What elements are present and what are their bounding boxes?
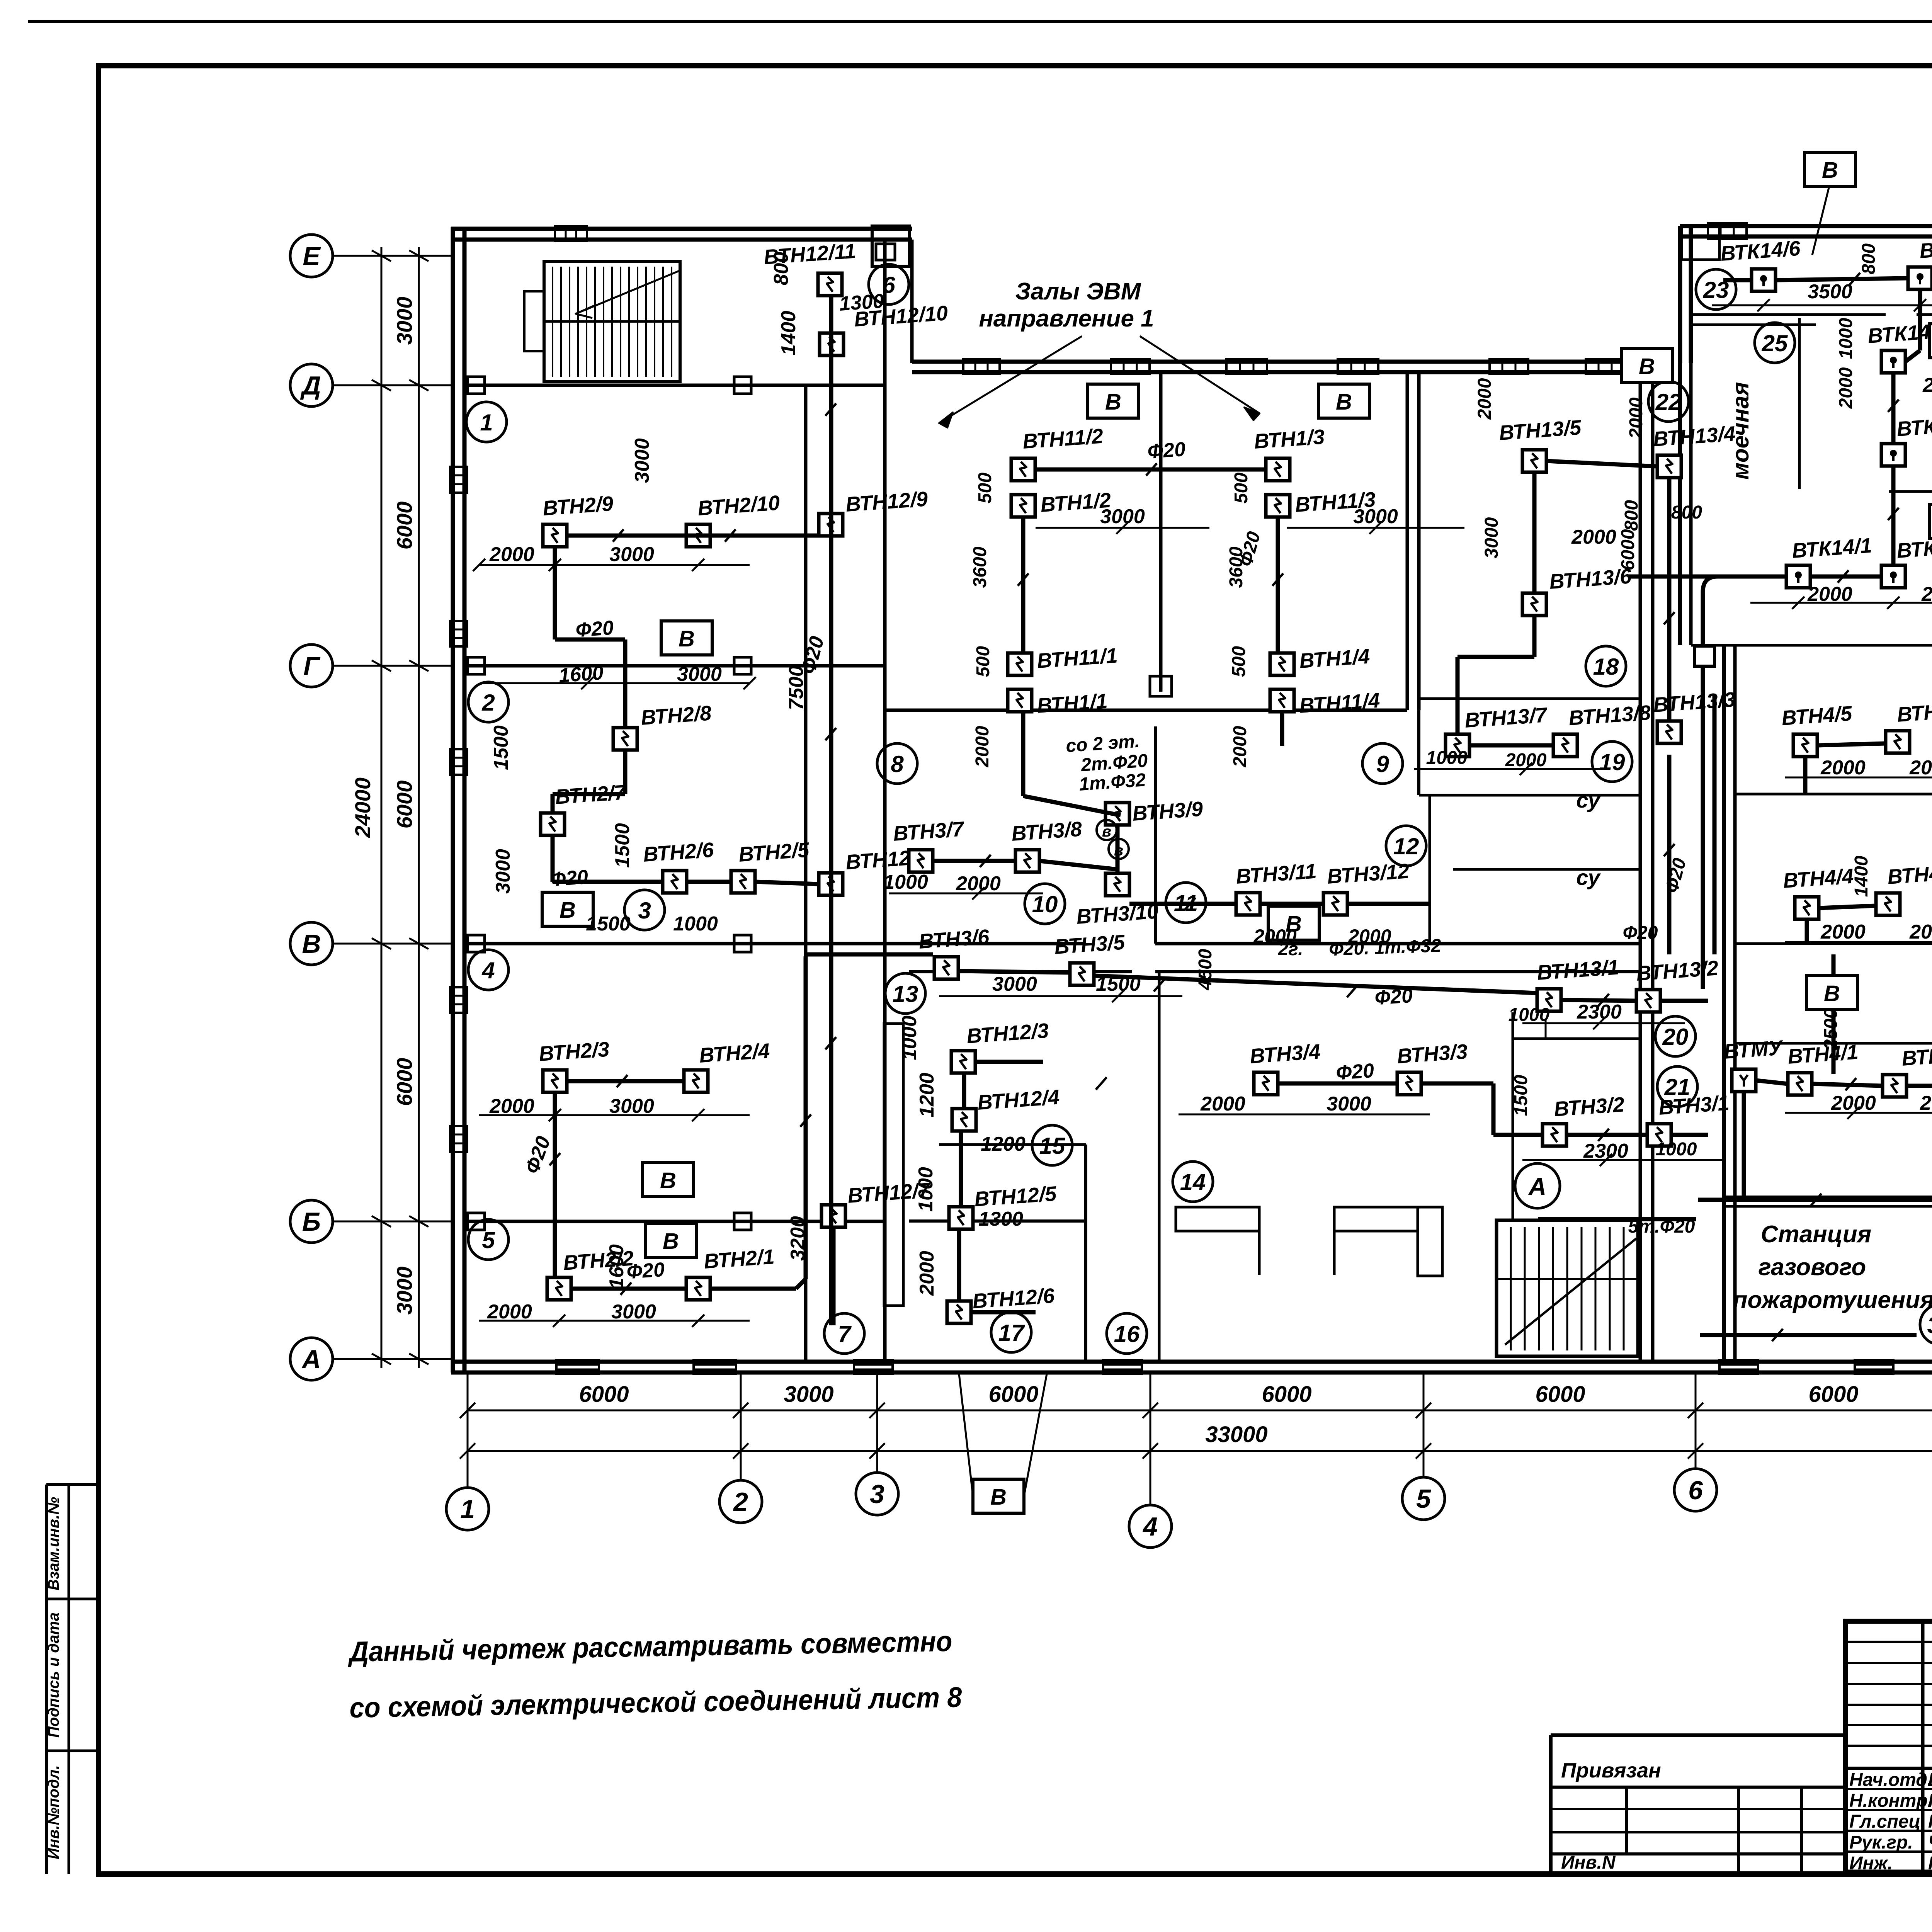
svg-text:Рук.гр.: Рук.гр. [1849,1832,1913,1853]
svg-text:3000: 3000 [1100,505,1145,528]
wire [1532,472,1537,593]
room circle 8 [877,743,917,784]
wire [1918,289,1922,350]
wire [1278,1082,1397,1086]
room circle 13 [885,973,925,1014]
sensor ВТН13/6 [1522,593,1546,616]
marker B [645,1223,696,1257]
svg-text:2000: 2000 [489,543,534,566]
svg-text:2000: 2000 [916,1251,938,1296]
bottom axis circle 6 [1674,1469,1717,1511]
svg-text:ВТН1/3: ВТН1/3 [1253,425,1325,453]
sensor ВТН2/4 [684,1070,708,1092]
wire [1260,902,1323,906]
svg-text:моечная: моечная [1728,382,1753,480]
wire [1532,616,1537,657]
wire slash marks [613,529,624,542]
room19 west wall [1417,710,1420,795]
room circle 10 [1025,884,1065,924]
wall axis Д [464,384,885,387]
svg-text:800: 800 [1671,502,1702,523]
corridor 20 riser wire [1703,577,1786,989]
wall axis Г [464,664,885,668]
svg-text:9: 9 [1376,751,1389,777]
sensor ВТН1/2 [1011,495,1035,517]
wire [1116,825,1120,873]
svg-text:Инж.: Инж. [1849,1853,1893,1874]
title block left grid blank rows [1845,1641,1932,1643]
svg-text:2: 2 [733,1487,748,1517]
sensor ВТН2/9 [543,524,567,547]
svg-text:В: В [1822,158,1838,183]
svg-text:А: А [301,1345,321,1374]
svg-text:6000: 6000 [392,502,417,550]
svg-text:500: 500 [973,646,993,677]
svg-text:5: 5 [1416,1484,1431,1514]
svg-text:2000: 2000 [956,872,1001,895]
svg-text:Подпись и дата: Подпись и дата [45,1612,62,1738]
wire [710,1287,796,1291]
svg-text:Е: Е [303,241,321,271]
axis A stair circle [1515,1163,1560,1208]
svg-text:500: 500 [975,473,995,503]
svg-text:Залы ЭВМ: Залы ЭВМ [1015,278,1141,305]
wall axis В center part [1155,942,1640,946]
svg-text:24000: 24000 [350,777,375,838]
privyazan sub-table [1551,1733,1845,1737]
svg-text:3000: 3000 [492,849,514,894]
sensor ВТН2/1 [686,1277,710,1300]
wire [1021,517,1026,653]
wire [1035,468,1266,472]
sensor ВТН4/3 [1876,893,1900,915]
marker B room27 [1806,976,1857,1010]
sensor ВТН11/1 [1008,653,1032,675]
svg-text:Волков: Волков [1928,1770,1932,1790]
svg-text:2000: 2000 [1820,921,1866,943]
wire [553,880,663,884]
wire [1723,278,1751,282]
stairwell fire-station [1497,1220,1638,1356]
wall center top exterior [912,360,1658,364]
svg-text:В: В [679,626,695,651]
marker B [1268,906,1319,940]
stairwell top-left [544,262,680,381]
wire [829,296,833,1325]
wire [1832,954,1836,1074]
wire [1660,999,1708,1003]
sensor ВТН11/4 [1270,689,1294,712]
svg-text:1400: 1400 [1851,855,1872,897]
marker B [661,621,712,655]
svg-text:направление 1: направление 1 [979,305,1154,332]
wire [1458,655,1534,659]
wire [962,1073,966,1109]
sensor ВТН11/3 [1266,495,1290,517]
svg-text:500: 500 [1229,646,1249,677]
wire [1667,478,1672,721]
room circle 1 [466,402,507,442]
svg-text:1200: 1200 [916,1073,938,1117]
svg-text:3000: 3000 [392,297,417,345]
svg-text:1500: 1500 [1096,973,1141,995]
svg-text:10: 10 [1032,891,1058,917]
left strip column [45,1485,48,1874]
svg-text:су: су [1576,865,1601,889]
corridor axis2-3 walls [804,385,808,1362]
su rooms walls [1429,795,1431,944]
svg-text:1500: 1500 [611,823,634,868]
svg-text:Ф20: Ф20 [1147,438,1186,463]
sensor ВТН3/10 [1105,873,1129,896]
svg-text:ВТМУ: ВТМУ [1723,1036,1784,1063]
svg-text:ВТН2/5: ВТН2/5 [738,838,810,866]
room circle 30 [1920,1304,1932,1345]
bottom dimension lines [468,1410,1932,1412]
title block outer [1845,1621,1932,1872]
wall top-left exterior [451,227,912,231]
wire [1812,1084,1883,1086]
svg-text:3600: 3600 [970,546,990,588]
wire [1819,906,1876,908]
wire [1756,1080,1788,1084]
room circle 12 [1386,826,1426,866]
svg-text:18: 18 [1593,654,1619,680]
svg-text:1000: 1000 [673,913,718,935]
svg-text:3000: 3000 [784,1382,833,1407]
svg-text:3500: 3500 [1808,281,1852,303]
axis В [290,922,333,965]
marker B [643,1163,694,1197]
svg-text:В: В [660,1168,676,1193]
wire [804,956,808,1279]
svg-text:5: 5 [482,1227,495,1253]
bottom axis circle 2 [719,1480,762,1523]
svg-text:5т.Ф20: 5т.Ф20 [1628,1216,1695,1237]
sensor ВТН12/7 [821,1205,845,1227]
bottom axis circle 3 [856,1473,898,1515]
marker B [1804,152,1855,186]
extra dimension lines [1712,304,1932,306]
wire [1129,902,1236,906]
svg-text:Ф20: Ф20 [575,617,614,642]
svg-text:25: 25 [1762,330,1788,356]
wire [553,792,625,796]
svg-text:ВТН4/3: ВТН4/3 [1887,861,1932,889]
wire [975,1060,1043,1064]
svg-text:1000: 1000 [883,871,928,893]
svg-text:2000: 2000 [1505,750,1547,770]
wire [1742,1092,1746,1197]
svg-text:Нач.отд.: Нач.отд. [1849,1770,1932,1790]
wire [687,880,731,884]
stair landing [524,291,544,351]
wire [1021,712,1026,796]
svg-text:500: 500 [1231,473,1252,503]
svg-text:ВТН4/6: ВТН4/6 [1896,698,1932,726]
svg-text:2000: 2000 [1921,583,1932,605]
sensor ВТМУ [1732,1069,1756,1092]
svg-text:4: 4 [481,957,495,983]
svg-text:В: В [1639,354,1655,379]
wire [1817,743,1886,745]
svg-text:13: 13 [893,981,918,1007]
svg-text:1600: 1600 [605,1244,628,1289]
svg-text:6000: 6000 [1535,1382,1585,1407]
wire [1810,575,1881,579]
sensor ВТН12/11 [818,273,842,296]
room circle 25 [1755,323,1795,363]
wire [555,638,625,642]
sensor ВТН3/8 [1015,850,1039,872]
wire [623,750,628,794]
bottom axis circle 5 [1402,1477,1445,1520]
sensor ВТН4/4 [1795,897,1819,919]
svg-text:ВТН3/1: ВТН3/1 [1658,1091,1730,1119]
svg-text:6000: 6000 [1808,1382,1858,1407]
wire [971,1310,1036,1315]
sensor ВТН1/4 [1270,653,1294,675]
svg-text:Д: Д [300,371,321,400]
sensor ВТН11/2 [1011,458,1035,481]
svg-text:В: В [990,1485,1007,1510]
svg-text:3000: 3000 [992,973,1037,995]
wire [1891,373,1896,444]
wire [551,835,555,882]
wire [1276,517,1280,653]
wire [1561,1000,1636,1001]
svg-text:4: 4 [1142,1512,1158,1541]
svg-text:ВТН3/5: ВТН3/5 [1054,930,1126,959]
marker B [1930,504,1932,538]
svg-text:1500: 1500 [586,913,631,935]
svg-text:6000: 6000 [1262,1382,1311,1407]
sensor ВТН3/9 [1105,803,1129,825]
svg-text:ВТН3/6: ВТН3/6 [918,925,990,953]
svg-text:1000: 1000 [915,1167,937,1212]
room15/17 divider [909,1219,1086,1223]
center top windows [963,359,1000,374]
svg-text:3000: 3000 [631,438,653,483]
svg-text:2300: 2300 [1583,1140,1628,1162]
svg-text:7500: 7500 [785,665,808,710]
svg-text:2000: 2000 [1626,397,1646,439]
room circle 23 [1696,269,1736,310]
wire [1667,755,1672,954]
wall axis Б [464,1220,885,1223]
small junction circles [1097,820,1117,840]
sensor ВТН12/5 [949,1207,973,1229]
svg-text:2000: 2000 [1909,921,1932,943]
sensor ВТН4/6 [1886,731,1910,753]
marker B [1930,324,1932,358]
svg-text:Червоткин: Червоткин [1928,1832,1932,1853]
wire [1906,1084,1932,1088]
room18 bottom wall [1419,697,1640,700]
svg-text:ВТН2/9: ВТН2/9 [542,492,614,520]
wire [1776,278,1908,280]
svg-text:800: 800 [1621,500,1642,531]
svg-text:ВТН2/1: ВТН2/1 [703,1245,775,1273]
wire [796,1279,806,1289]
title block signature rows [1845,1767,1932,1770]
corridor В south wall west part [909,970,1132,973]
svg-text:2300: 2300 [1577,1001,1622,1023]
column post hall [1150,676,1172,696]
left dimension chain lines [381,247,383,1368]
svg-text:ВТН2/3: ВТН2/3 [538,1037,610,1066]
svg-text:в: в [1102,823,1111,840]
room circle 20 [1655,1016,1696,1056]
svg-text:В: В [560,898,576,923]
svg-text:ВТН4/5: ВТН4/5 [1781,702,1853,730]
sensor ВТН12/6 [947,1301,971,1323]
room circle 11 [1166,883,1206,923]
room circle 3 [624,890,665,930]
room circle 6 [869,264,909,304]
sensor ВТН2/6 [663,871,687,893]
room19 bottom wall [1419,794,1640,797]
svg-text:ВТН3/3: ВТН3/3 [1396,1040,1468,1068]
sensor ВТН2/2 [547,1277,571,1300]
svg-text:1000: 1000 [1656,1139,1697,1160]
axis Б [290,1200,333,1243]
svg-text:2000: 2000 [1230,726,1250,767]
wire [567,1079,684,1083]
wire [958,971,1070,973]
svg-text:6: 6 [882,272,895,298]
sensor ВТК14/6 [1752,269,1776,291]
marker B [973,1479,1024,1513]
svg-text:Г: Г [303,651,321,681]
svg-text:В: В [1336,389,1352,415]
wire [1456,657,1460,734]
svg-text:1300: 1300 [838,290,885,315]
room circle 9 [1362,743,1403,784]
svg-text:1: 1 [480,410,493,435]
sensor ВТН3/6 [934,957,958,979]
title block left grid verticals [1921,1621,1925,1872]
wire [1546,461,1657,466]
svg-text:Инв.№подл.: Инв.№подл. [45,1765,62,1859]
svg-text:ВТН4/4: ВТН4/4 [1782,864,1854,893]
sensor ВТН13/8 [1553,734,1577,757]
svg-text:2000: 2000 [1475,378,1495,420]
room circle 15 [1032,1125,1072,1165]
room circle 2 [468,682,509,722]
svg-text:Ф20: Ф20 [549,866,589,891]
sensor ВТН3/12 [1323,893,1347,915]
svg-text:В: В [1105,389,1121,415]
sensor ВТК14/3 [1881,444,1905,466]
svg-text:ВТН2/6: ВТН2/6 [643,838,715,866]
svg-text:1500: 1500 [490,725,512,770]
svg-text:2000: 2000 [1807,583,1852,605]
sensor ВТН12/8 [819,873,843,895]
wire [832,1227,836,1325]
wire [571,1287,686,1291]
hall divider 8/9 [1159,372,1163,692]
wire [1905,350,1920,362]
wire [957,1229,961,1301]
svg-text:Ф20: Ф20 [1335,1060,1375,1085]
top-left canopy [872,226,910,266]
wire [567,534,819,538]
right corridor walls [1639,372,1642,1362]
svg-text:3000: 3000 [1327,1093,1371,1115]
marker B [1318,384,1369,418]
sensor ВТН2/8 [613,728,637,750]
svg-text:3000: 3000 [1481,517,1502,558]
svg-text:6000: 6000 [988,1382,1038,1407]
svg-text:В: В [663,1229,679,1254]
vestibule west wall [1158,972,1161,1362]
svg-text:2000: 2000 [487,1301,532,1323]
svg-text:2000: 2000 [1253,925,1296,947]
svg-text:В: В [302,929,321,959]
wire [1629,575,1786,579]
axis Д [290,364,333,406]
svg-text:22: 22 [1655,389,1682,415]
wire [1698,1198,1932,1202]
bottom wall windows [556,1360,599,1374]
halls bottom wall [885,709,1407,712]
svg-text:8: 8 [891,751,904,777]
leader lines for B boxes [1812,186,1829,255]
svg-text:1000: 1000 [1509,1005,1550,1025]
wire [1023,796,1121,815]
room15 walls [939,1143,1086,1146]
svg-text:А: А [1528,1173,1546,1201]
svg-text:6000: 6000 [1618,529,1638,570]
sensor ВТН1/1 [1008,689,1032,712]
svg-text:12: 12 [1393,833,1419,859]
svg-text:2000: 2000 [1922,374,1932,396]
sensor ВТН1/3 [1266,458,1290,481]
wire [1538,1217,1696,1221]
svg-text:1: 1 [460,1495,475,1524]
svg-text:Побережец: Побережец [1928,1853,1932,1874]
wire [1566,1133,1647,1137]
marker B [1088,384,1139,418]
svg-text:800: 800 [770,252,793,286]
svg-text:Привязан: Привязан [1561,1759,1661,1782]
svg-text:су: су [1576,788,1601,812]
vestibule porches [1176,1207,1259,1231]
svg-text:19: 19 [1599,749,1625,775]
svg-text:Б: Б [302,1207,321,1236]
svg-text:1000: 1000 [898,1015,921,1060]
svg-text:3200: 3200 [787,1216,809,1261]
svg-text:ВТН2/8: ВТН2/8 [640,701,712,730]
wire [1700,1333,1917,1337]
svg-text:Инв.N: Инв.N [1561,1852,1616,1873]
svg-text:ВТН1/4: ВТН1/4 [1299,645,1371,673]
top-left wall window [555,226,587,241]
svg-text:800: 800 [1859,243,1879,274]
corridor jog wall top [910,240,914,363]
marker B [1621,349,1672,383]
room12 west wall [1154,726,1157,944]
wall axis В mid [885,942,1086,946]
svg-text:3: 3 [638,898,651,923]
sensor ВТН3/11 [1236,893,1260,915]
svg-text:1000: 1000 [1426,748,1468,768]
sensor ВТН3/5 [1070,963,1094,985]
sensor ВТН12/10 [820,333,844,355]
room 20/21 walls [1512,1012,1514,1221]
svg-text:1400: 1400 [777,311,800,355]
